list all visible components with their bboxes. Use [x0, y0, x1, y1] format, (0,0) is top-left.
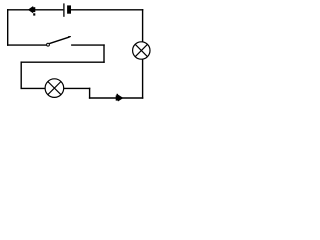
current arrow (top, pointing left)	[28, 6, 36, 16]
wire drop vertical	[89, 88, 91, 99]
wire lamp row right	[64, 87, 91, 89]
wire switch row left	[7, 44, 46, 46]
wire mid horizontal	[21, 61, 105, 63]
lamp L1 (bottom-left) bulb circle	[45, 79, 64, 98]
battery B1 short thick plate	[67, 5, 71, 13]
wire right vertical lower	[142, 59, 144, 99]
wire mid-left vertical	[20, 61, 22, 89]
lamp L2 cross stroke 1	[135, 44, 147, 56]
wire lamp row left	[21, 87, 46, 89]
battery B1 long plate	[63, 3, 65, 16]
wire bottom horizontal	[89, 97, 143, 99]
wire left vertical	[7, 9, 9, 46]
lamp L1 cross stroke 2	[48, 82, 61, 95]
lamp L1 cross stroke 1	[48, 82, 61, 95]
switch S1 blade tip tick	[68, 36, 71, 38]
switch S1 blade (open)	[49, 37, 69, 44]
switch S1 pivot circle	[47, 43, 50, 46]
wire switch row right	[71, 44, 105, 46]
wire right vertical upper	[142, 9, 144, 42]
lamp L2 cross stroke 2	[135, 44, 147, 56]
wire top-right horizontal	[71, 9, 143, 11]
wire top-left horizontal (to battery long plate)	[7, 9, 63, 11]
wire mid-right vertical	[103, 44, 105, 62]
lamp L2 (right) bulb circle	[133, 42, 150, 59]
current arrow (bottom, pointing right)	[116, 94, 124, 102]
